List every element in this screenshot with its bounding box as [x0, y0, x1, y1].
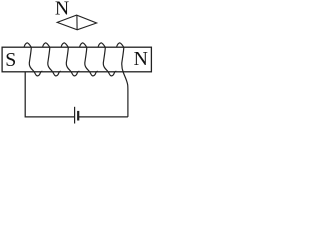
svg-text:S: S — [5, 49, 16, 71]
battery short plate (-) — [77, 111, 79, 121]
coil turn 3 — [61, 43, 79, 76]
core bar (iron core with poles) — [2, 47, 151, 72]
coil turn 6 — [117, 43, 128, 117]
left lead wire — [25, 72, 74, 117]
coil turn 1 — [24, 43, 42, 76]
coil turn 2 — [43, 43, 61, 76]
bottom wire right — [78, 116, 128, 118]
coil turn 4 — [80, 43, 98, 76]
svg-text:N: N — [134, 48, 148, 70]
compass needle — [57, 15, 96, 30]
svg-text:N: N — [55, 0, 69, 19]
battery long plate (+) — [74, 107, 76, 124]
coil turn 5 — [98, 43, 116, 76]
